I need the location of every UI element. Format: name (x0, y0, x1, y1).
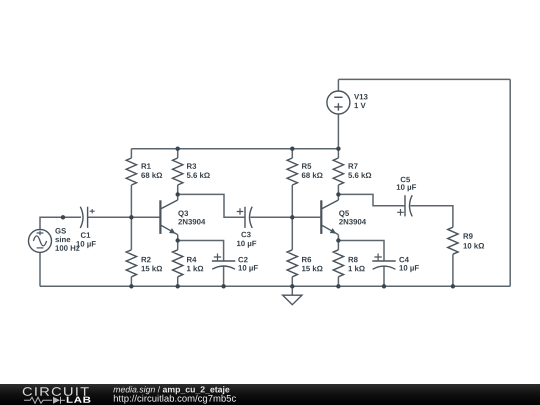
wire: R8 bottom lead (337, 277, 339, 287)
label C5 (401, 177, 406, 183)
capacitor C4 plus (374, 254, 381, 261)
label R9 (464, 233, 469, 238)
wire: R7 bottom lead to Q5 collector (337, 185, 339, 200)
wire: stage top rail (131, 148, 338, 150)
wire: collector node to C3 step (178, 194, 245, 217)
label C3 (241, 232, 246, 238)
label R7 (349, 163, 354, 168)
node: Q3 collector (176, 192, 180, 196)
wire: R3 top lead (177, 149, 179, 158)
footer line 1 (paths) (113, 386, 229, 394)
wire: GS top lead (40, 217, 81, 229)
logo LAB (paths) (67, 397, 91, 403)
source V13 minus (334, 96, 342, 98)
label R3 (187, 163, 192, 168)
wire: V13 top lead (337, 79, 339, 91)
label R4 (187, 257, 192, 262)
capacitor C4 plates (372, 261, 395, 269)
wire: R6 bottom lead (291, 277, 293, 287)
label C4 (399, 257, 404, 263)
wire: GS bottom lead (39, 252, 41, 286)
wire: R2 top lead (130, 217, 132, 250)
source GS circle (29, 229, 52, 252)
resistor R1 (126, 158, 136, 185)
wire: stage2 base node to Q5 (292, 216, 320, 218)
node: Q5 collector (336, 192, 340, 196)
node: Q5 emitter (336, 238, 340, 242)
capacitor C5 plus (397, 209, 404, 216)
wire: R4 top lead (177, 241, 179, 250)
wire: R7 top lead (337, 149, 339, 158)
source GS plus (37, 231, 44, 236)
wire: R6 top lead (291, 217, 293, 250)
wire: C2 bottom lead (223, 266, 225, 286)
wire: R3 bottom lead to collector (177, 185, 179, 200)
source V13 plus (334, 103, 342, 110)
capacitor C1 plates (80, 207, 87, 228)
label R2 (142, 257, 147, 262)
wire: C5 right to R9 (410, 206, 453, 227)
resistor R2 (126, 250, 136, 277)
node: ground (290, 284, 294, 288)
wire: R1 bottom lead to base node (130, 185, 132, 217)
wire: Q3 emitter vertical (177, 235, 179, 241)
source GS sine (33, 236, 46, 246)
node: Q3 emitter (176, 238, 180, 242)
resistor R4 (173, 250, 183, 277)
node: input dot (61, 215, 65, 219)
node: R8 bottom (336, 284, 340, 288)
footer line 2 (paths) (114, 395, 236, 404)
label R5 (302, 163, 307, 168)
node: C2 bottom (221, 284, 225, 288)
node: R3 top (176, 147, 180, 151)
wire: R4 bottom lead (177, 277, 179, 287)
transistor Q3 (160, 200, 177, 235)
label V13 (354, 94, 359, 99)
node: stage2 base (290, 215, 294, 219)
wire: C4 bottom lead (383, 266, 385, 286)
node: R5 top (290, 147, 294, 151)
capacitor C3 plates (245, 207, 252, 228)
wire: V13 bottom lead (337, 114, 339, 149)
source GS minus (37, 247, 44, 249)
wire: ground stub (291, 286, 293, 295)
wire: C3 right to stage2 base node (250, 216, 292, 218)
capacitor C3 plus (237, 208, 244, 215)
label GS (55, 228, 60, 234)
resistor R9 (448, 227, 458, 254)
wire: bottom rail (40, 285, 510, 287)
resistor R8 (333, 250, 343, 277)
label Q5 (339, 210, 344, 217)
resistor R5 (287, 158, 297, 185)
label R8 (349, 257, 354, 262)
label R1 (142, 163, 147, 168)
node: C4 bottom (382, 284, 386, 288)
wire: Q5 emitter node to C4 (338, 241, 384, 262)
capacitor C1 plus (90, 209, 95, 213)
capacitor C2 plus (214, 254, 221, 261)
node: R2 bottom (129, 284, 133, 288)
wire: top rail (338, 78, 510, 80)
capacitor C2 plates (212, 261, 235, 269)
wire: C1 right to Q3 base (88, 216, 160, 218)
wire: Q5 collector node to C5 step (338, 194, 405, 205)
wire: R8 top lead (337, 241, 339, 250)
wire: Q5 emitter vertical (337, 235, 339, 241)
resistor R3 (173, 158, 183, 185)
logo CIRCUIT (paths) (23, 387, 89, 396)
source V13 circle (327, 91, 350, 114)
ground (283, 295, 302, 305)
wire: R9 bottom lead (452, 254, 454, 286)
wire: R5 bottom lead (291, 185, 293, 217)
label R6 (302, 257, 307, 262)
wire: R2 bottom lead (130, 277, 132, 287)
wire: Q3 emitter node to C2 (178, 241, 224, 262)
wire: R5 top lead (291, 149, 293, 158)
logo mark wire/resistor/diode (24, 397, 65, 404)
node: R4 bottom (176, 284, 180, 288)
resistor R7 (333, 158, 343, 185)
node: stage1 base (129, 215, 133, 219)
transistor Q5 (321, 200, 338, 235)
wire: right edge vertical (509, 79, 511, 286)
resistor R6 (287, 250, 297, 277)
label Q3 (178, 210, 183, 217)
node: V13/R7 (336, 147, 340, 151)
label C1 (81, 232, 86, 238)
capacitor C5 plates (405, 195, 412, 216)
wire: R1 top lead (130, 149, 132, 158)
node: R9 bottom (451, 284, 455, 288)
label C2 (238, 257, 243, 263)
